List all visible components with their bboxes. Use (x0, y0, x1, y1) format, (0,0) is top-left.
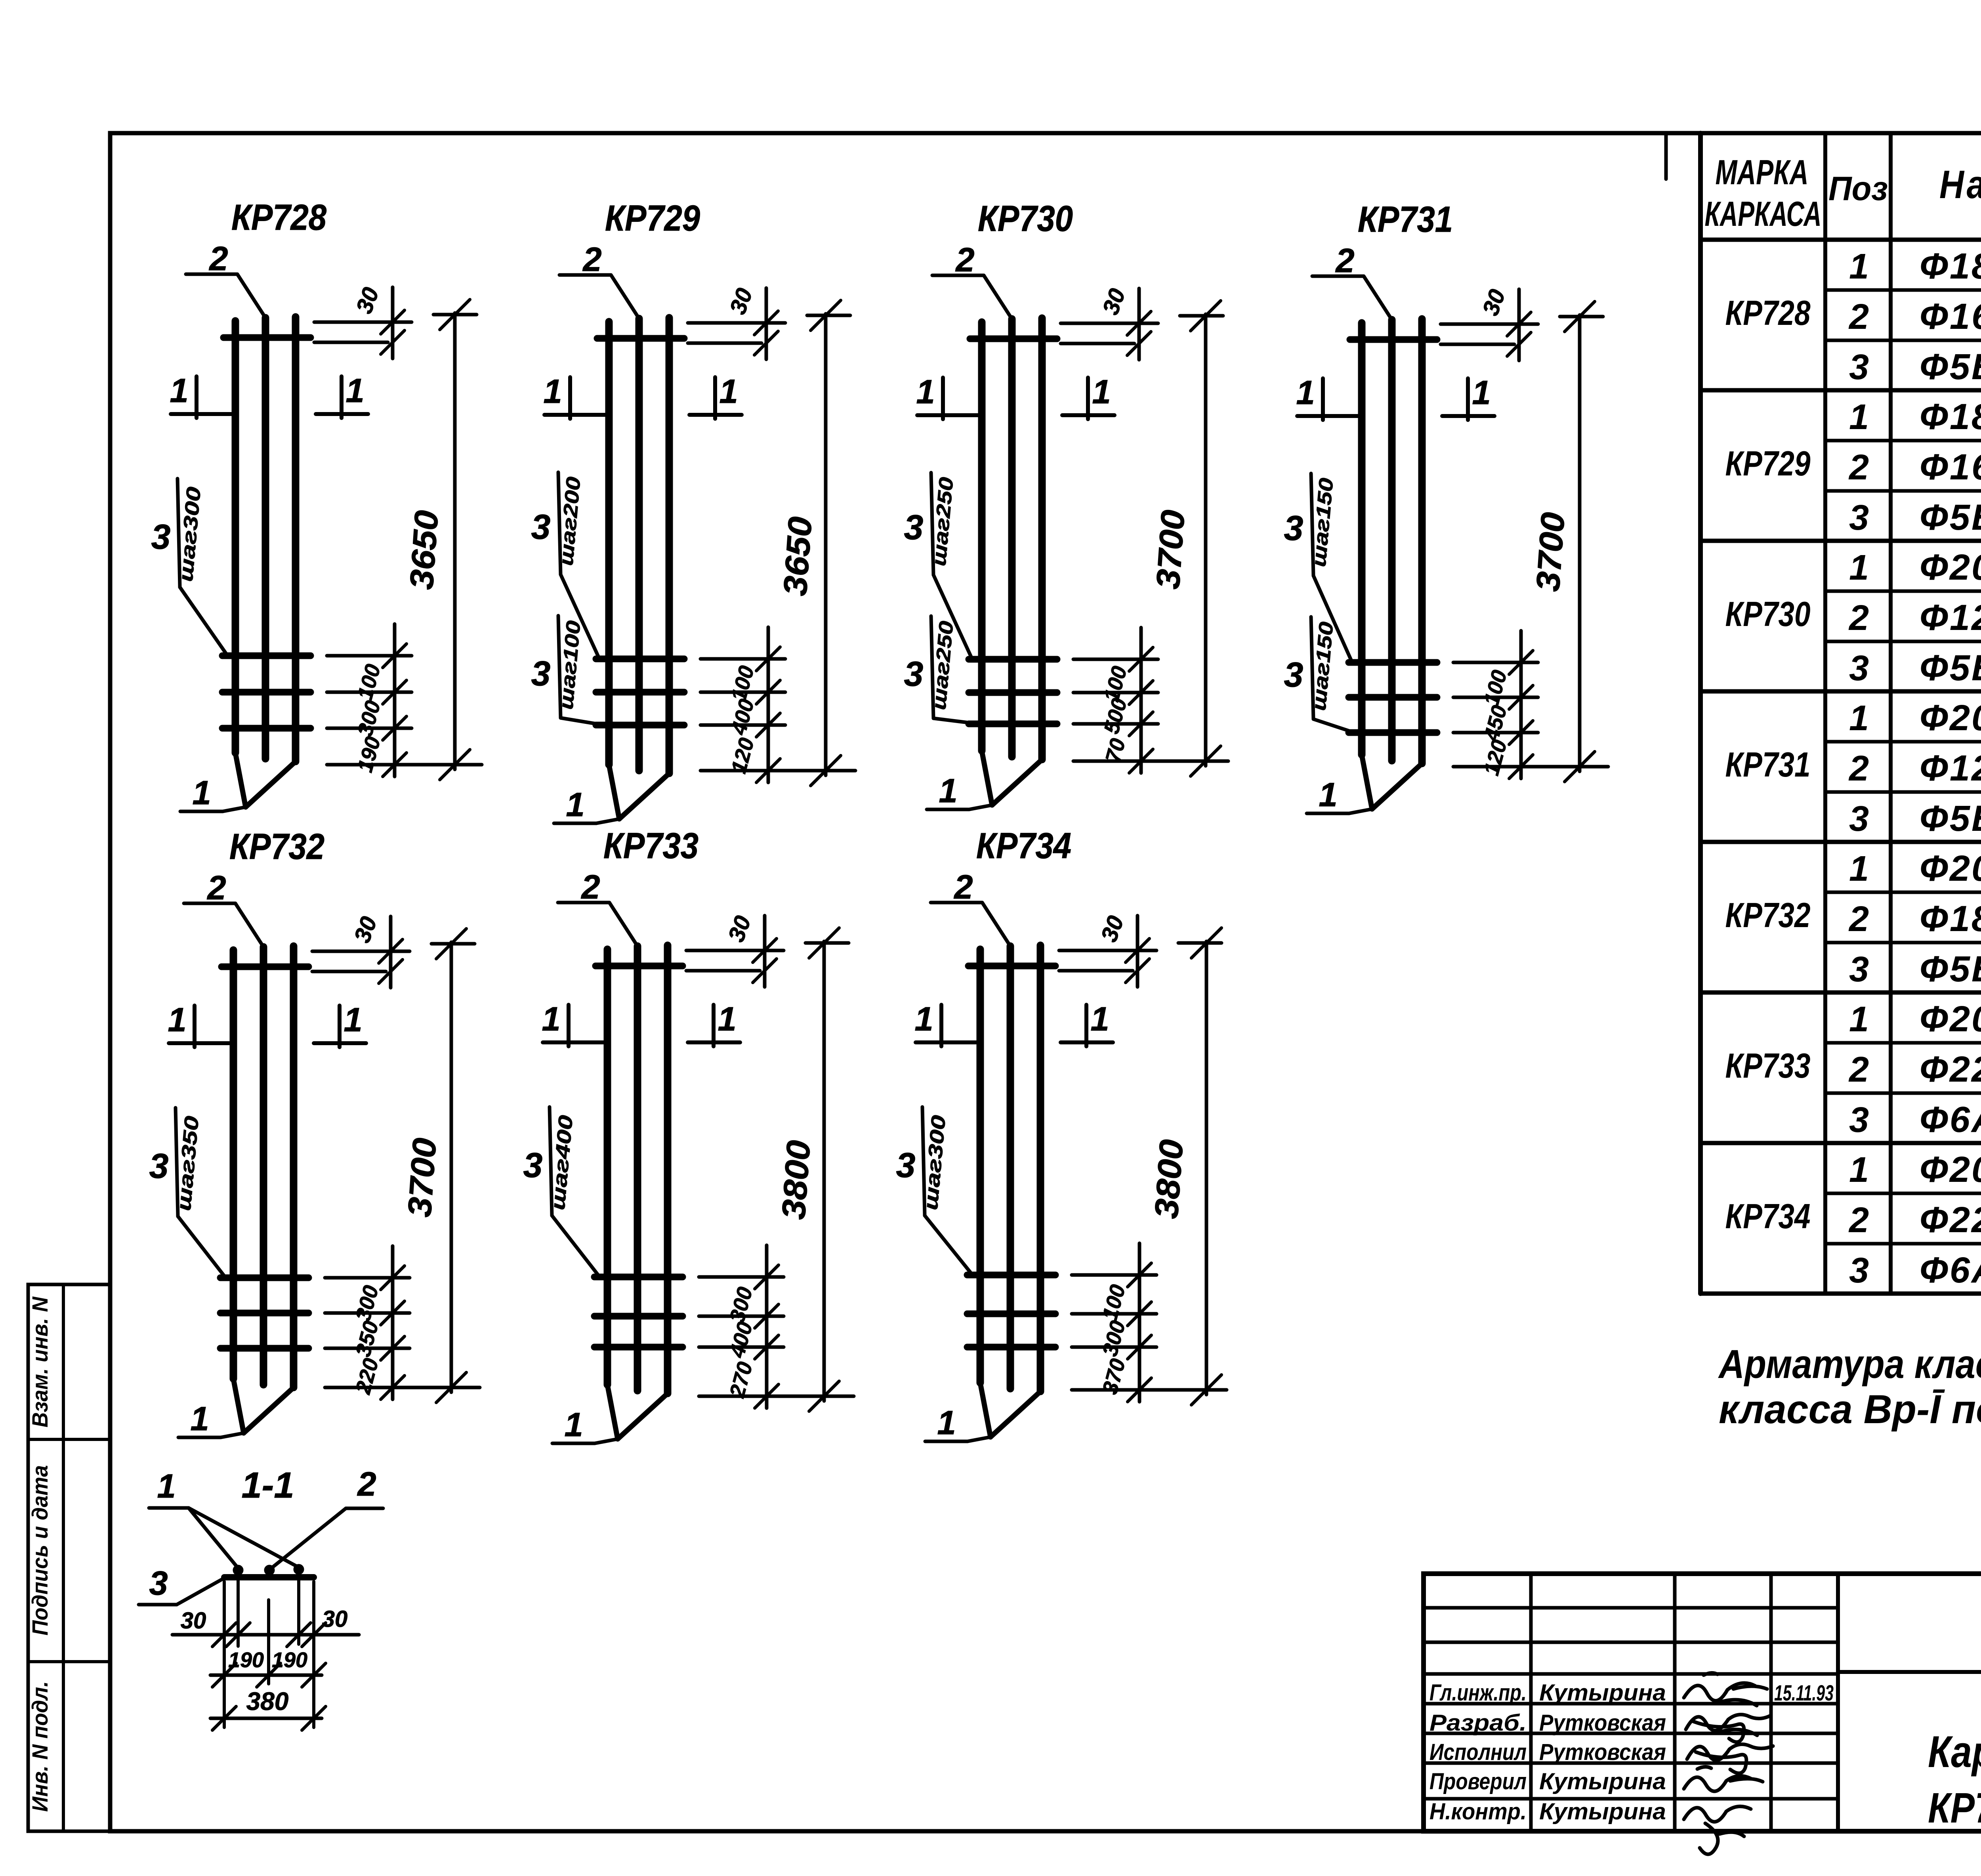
title block grid (1424, 1574, 1981, 1831)
cage КР733 (523, 826, 854, 1444)
svg-text:3800: 3800 (1147, 1138, 1190, 1220)
svg-text:Взам. инв. N: Взам. инв. N (27, 1296, 52, 1428)
svg-text:Ф20АIII ℓ=3700: Ф20АIII ℓ=3700 (1920, 547, 1981, 588)
svg-text:Ф5ВрĪ ℓ=380: Ф5ВрĪ ℓ=380 (1920, 347, 1981, 387)
svg-text:3: 3 (896, 1145, 916, 1185)
svg-text:Н.контр.: Н.контр. (1429, 1799, 1527, 1824)
svg-text:Ф20АIII ℓ=3700: Ф20АIII ℓ=3700 (1920, 698, 1981, 738)
svg-text:3700: 3700 (1529, 511, 1572, 593)
svg-text:КР731: КР731 (1358, 199, 1453, 240)
svg-text:Кутырина: Кутырина (1539, 1680, 1666, 1706)
svg-text:1: 1 (718, 1000, 736, 1038)
svg-text:Кутырина: Кутырина (1539, 1769, 1666, 1794)
svg-text:КР729: КР729 (1725, 444, 1811, 483)
svg-text:КР729: КР729 (605, 198, 700, 239)
svg-text:1: 1 (543, 373, 562, 410)
svg-text:3: 3 (1849, 347, 1869, 387)
svg-text:3650: 3650 (403, 509, 445, 591)
svg-text:КР731: КР731 (1725, 745, 1811, 784)
svg-text:КР728: КР728 (1725, 293, 1811, 332)
svg-text:КР732: КР732 (1725, 895, 1811, 935)
svg-text:1: 1 (937, 1404, 956, 1442)
dim 190 row (210, 1674, 322, 1677)
svg-text:1: 1 (344, 1001, 362, 1039)
svg-text:1: 1 (1849, 548, 1869, 588)
svg-text:КР733: КР733 (603, 826, 699, 866)
svg-text:1: 1 (1849, 1000, 1869, 1039)
svg-text:30: 30 (322, 1606, 348, 1632)
svg-text:1: 1 (1319, 776, 1337, 814)
svg-text:Рутковская: Рутковская (1539, 1710, 1666, 1736)
svg-text:1: 1 (719, 373, 738, 410)
svg-text:КР728...КР734: КР728...КР734 (1928, 1784, 1981, 1832)
svg-text:Ф20АIII ℓ=3800: Ф20АIII ℓ=3800 (1920, 999, 1981, 1039)
svg-text:1: 1 (170, 372, 188, 410)
svg-text:2: 2 (1848, 749, 1869, 788)
dim 30 row (172, 1633, 359, 1637)
svg-text:2: 2 (1335, 242, 1354, 280)
svg-text:2: 2 (955, 241, 974, 279)
svg-text:Ф5ВрĪ ℓ=380: Ф5ВрĪ ℓ=380 (1920, 949, 1981, 989)
svg-text:Ф18АIII ℓ=3650: Ф18АIII ℓ=3650 (1920, 397, 1981, 437)
svg-text:Ф5ВрĪ ℓ=380: Ф5ВрĪ ℓ=380 (1920, 497, 1981, 538)
svg-text:Ф12АIII ℓ=3700: Ф12АIII ℓ=3700 (1920, 597, 1981, 638)
svg-text:1: 1 (542, 1000, 560, 1038)
svg-text:2: 2 (1848, 598, 1869, 638)
svg-text:Ф6АĪ ℓ=380: Ф6АĪ ℓ=380 (1920, 1099, 1981, 1140)
cage КР734 (896, 826, 1227, 1442)
svg-text:3: 3 (1284, 655, 1303, 694)
svg-text:3: 3 (1849, 799, 1869, 839)
svg-text:Ф16АIII ℓ=3650: Ф16АIII ℓ=3650 (1920, 296, 1981, 337)
svg-text:3: 3 (149, 1565, 168, 1602)
svg-text:1: 1 (566, 786, 584, 824)
svg-text:1: 1 (1296, 374, 1315, 412)
svg-text:3: 3 (151, 517, 171, 556)
svg-text:3: 3 (1284, 508, 1303, 548)
section extension lines (223, 1582, 226, 1727)
svg-text:Инв. N подл.: Инв. N подл. (27, 1681, 52, 1812)
svg-text:Ф5ВрĪ ℓ=380: Ф5ВрĪ ℓ=380 (1920, 648, 1981, 688)
svg-text:2: 2 (357, 1466, 376, 1503)
svg-text:1: 1 (914, 1000, 933, 1038)
svg-text:2: 2 (1848, 448, 1869, 487)
svg-text:2: 2 (582, 241, 601, 279)
svg-text:1: 1 (345, 372, 364, 410)
svg-text:3: 3 (1849, 950, 1869, 989)
svg-text:класса Вр-Ī по ГОСТ 6727-80: класса Вр-Ī по ГОСТ 6727-80 (1719, 1387, 1981, 1432)
svg-text:2: 2 (1848, 1050, 1869, 1090)
svg-text:3: 3 (1849, 498, 1869, 538)
svg-text:1: 1 (1849, 397, 1869, 437)
section bar pos3 (224, 1574, 314, 1580)
svg-text:Ф18АIII ℓ=3700: Ф18АIII ℓ=3700 (1920, 899, 1981, 939)
svg-text:3: 3 (904, 508, 924, 547)
svg-text:2: 2 (208, 240, 228, 278)
rebar dots (233, 1565, 243, 1575)
svg-text:2: 2 (953, 868, 973, 906)
svg-text:1: 1 (168, 1001, 186, 1039)
svg-text:3: 3 (904, 654, 924, 693)
cage КР732 (149, 826, 480, 1438)
svg-text:Ф12АIII ℓ=3700: Ф12АIII ℓ=3700 (1920, 748, 1981, 788)
svg-text:1: 1 (1849, 698, 1869, 738)
svg-text:КР730: КР730 (1725, 594, 1811, 634)
svg-text:Проверил: Проверил (1429, 1769, 1527, 1794)
svg-text:1: 1 (1849, 247, 1869, 286)
svg-text:1: 1 (192, 774, 211, 812)
svg-text:КР728: КР728 (231, 197, 327, 238)
cage КР728 (151, 197, 482, 812)
cage КР731 (1284, 199, 1608, 814)
svg-text:КР734: КР734 (1725, 1197, 1811, 1236)
svg-text:1: 1 (1849, 1150, 1869, 1190)
svg-text:МАРКА: МАРКА (1716, 153, 1809, 192)
svg-text:190: 190 (272, 1648, 307, 1672)
cage КР730 (904, 198, 1228, 810)
svg-text:Ф22АIII ℓ=3800: Ф22АIII ℓ=3800 (1920, 1049, 1981, 1090)
svg-text:2: 2 (1848, 297, 1869, 337)
svg-text:Ф5ВрĪ ℓ=380: Ф5ВрĪ ℓ=380 (1920, 798, 1981, 839)
svg-text:3: 3 (1849, 649, 1869, 688)
svg-text:3: 3 (1849, 1100, 1869, 1140)
left stamp boxes (28, 1284, 110, 1831)
svg-text:Каркас плоский: Каркас плоский (1928, 1727, 1981, 1777)
svg-text:1: 1 (1849, 849, 1869, 889)
svg-text:1-1: 1-1 (242, 1465, 294, 1506)
svg-text:3: 3 (523, 1145, 543, 1185)
svg-text:1: 1 (1092, 373, 1111, 411)
svg-text:Ф20АIII ℓ=3700: Ф20АIII ℓ=3700 (1920, 848, 1981, 889)
svg-text:2: 2 (1848, 1200, 1869, 1240)
svg-text:1: 1 (190, 1400, 209, 1438)
svg-text:КР733: КР733 (1725, 1046, 1811, 1085)
svg-text:2: 2 (580, 868, 600, 906)
svg-text:3800: 3800 (775, 1139, 817, 1221)
svg-text:1: 1 (1472, 374, 1491, 412)
svg-text:КР734: КР734 (976, 826, 1071, 866)
svg-text:1: 1 (564, 1406, 583, 1444)
svg-text:Ф22АIII ℓ=3800: Ф22АIII ℓ=3800 (1920, 1200, 1981, 1240)
svg-text:15.11.93: 15.11.93 (1774, 1680, 1834, 1705)
svg-text:Ф16АIII ℓ=3650: Ф16АIII ℓ=3650 (1920, 447, 1981, 487)
signatures squiggles (1684, 1673, 1773, 1854)
svg-text:Ф6АĪ ℓ=380: Ф6АĪ ℓ=380 (1920, 1250, 1981, 1290)
svg-text:2: 2 (206, 869, 226, 907)
svg-text:Кутырина: Кутырина (1539, 1799, 1666, 1824)
svg-text:30: 30 (181, 1608, 206, 1634)
dim 380 row (210, 1717, 322, 1720)
svg-text:Ф18АIII ℓ=3650: Ф18АIII ℓ=3650 (1920, 246, 1981, 286)
svg-text:КАРКАСА: КАРКАСА (1705, 194, 1822, 233)
svg-text:Гл.инж.пр.: Гл.инж.пр. (1429, 1680, 1527, 1706)
svg-text:Поз: Поз (1828, 170, 1888, 208)
svg-text:1: 1 (1090, 1000, 1109, 1038)
svg-text:КР730: КР730 (978, 198, 1073, 239)
svg-text:1: 1 (157, 1468, 176, 1505)
cage КР729 (531, 198, 855, 824)
svg-text:3700: 3700 (1149, 509, 1192, 590)
svg-text:Рутковская: Рутковская (1539, 1739, 1666, 1765)
svg-text:3700: 3700 (401, 1137, 443, 1218)
svg-text:Разраб.: Разраб. (1429, 1710, 1527, 1736)
svg-text:380: 380 (246, 1687, 289, 1716)
svg-text:2: 2 (1848, 899, 1869, 939)
svg-text:Наименование: Наименование (1939, 162, 1981, 207)
svg-text:3: 3 (1849, 1251, 1869, 1290)
svg-text:190: 190 (228, 1648, 264, 1672)
svg-text:Ф20АIII ℓ=3800: Ф20АIII ℓ=3800 (1920, 1149, 1981, 1190)
svg-text:3: 3 (149, 1146, 169, 1185)
svg-text:Исполнил: Исполнил (1429, 1739, 1527, 1765)
svg-text:Подпись и дата: Подпись и дата (27, 1465, 52, 1636)
svg-text:1: 1 (916, 373, 935, 411)
svg-text:КР732: КР732 (229, 826, 324, 867)
svg-text:1: 1 (939, 772, 957, 810)
svg-text:3: 3 (531, 654, 551, 693)
svg-text:3650: 3650 (776, 515, 819, 597)
fold mark (1664, 133, 1668, 179)
specification table grid (1698, 133, 1703, 1294)
svg-text:3: 3 (531, 507, 551, 546)
svg-text:Арматура класса А-ĪĪĪ и А-Ī: Арматура класса А-ĪĪĪ и А-Ī по ГОСТ 5781… (1718, 1342, 1981, 1387)
